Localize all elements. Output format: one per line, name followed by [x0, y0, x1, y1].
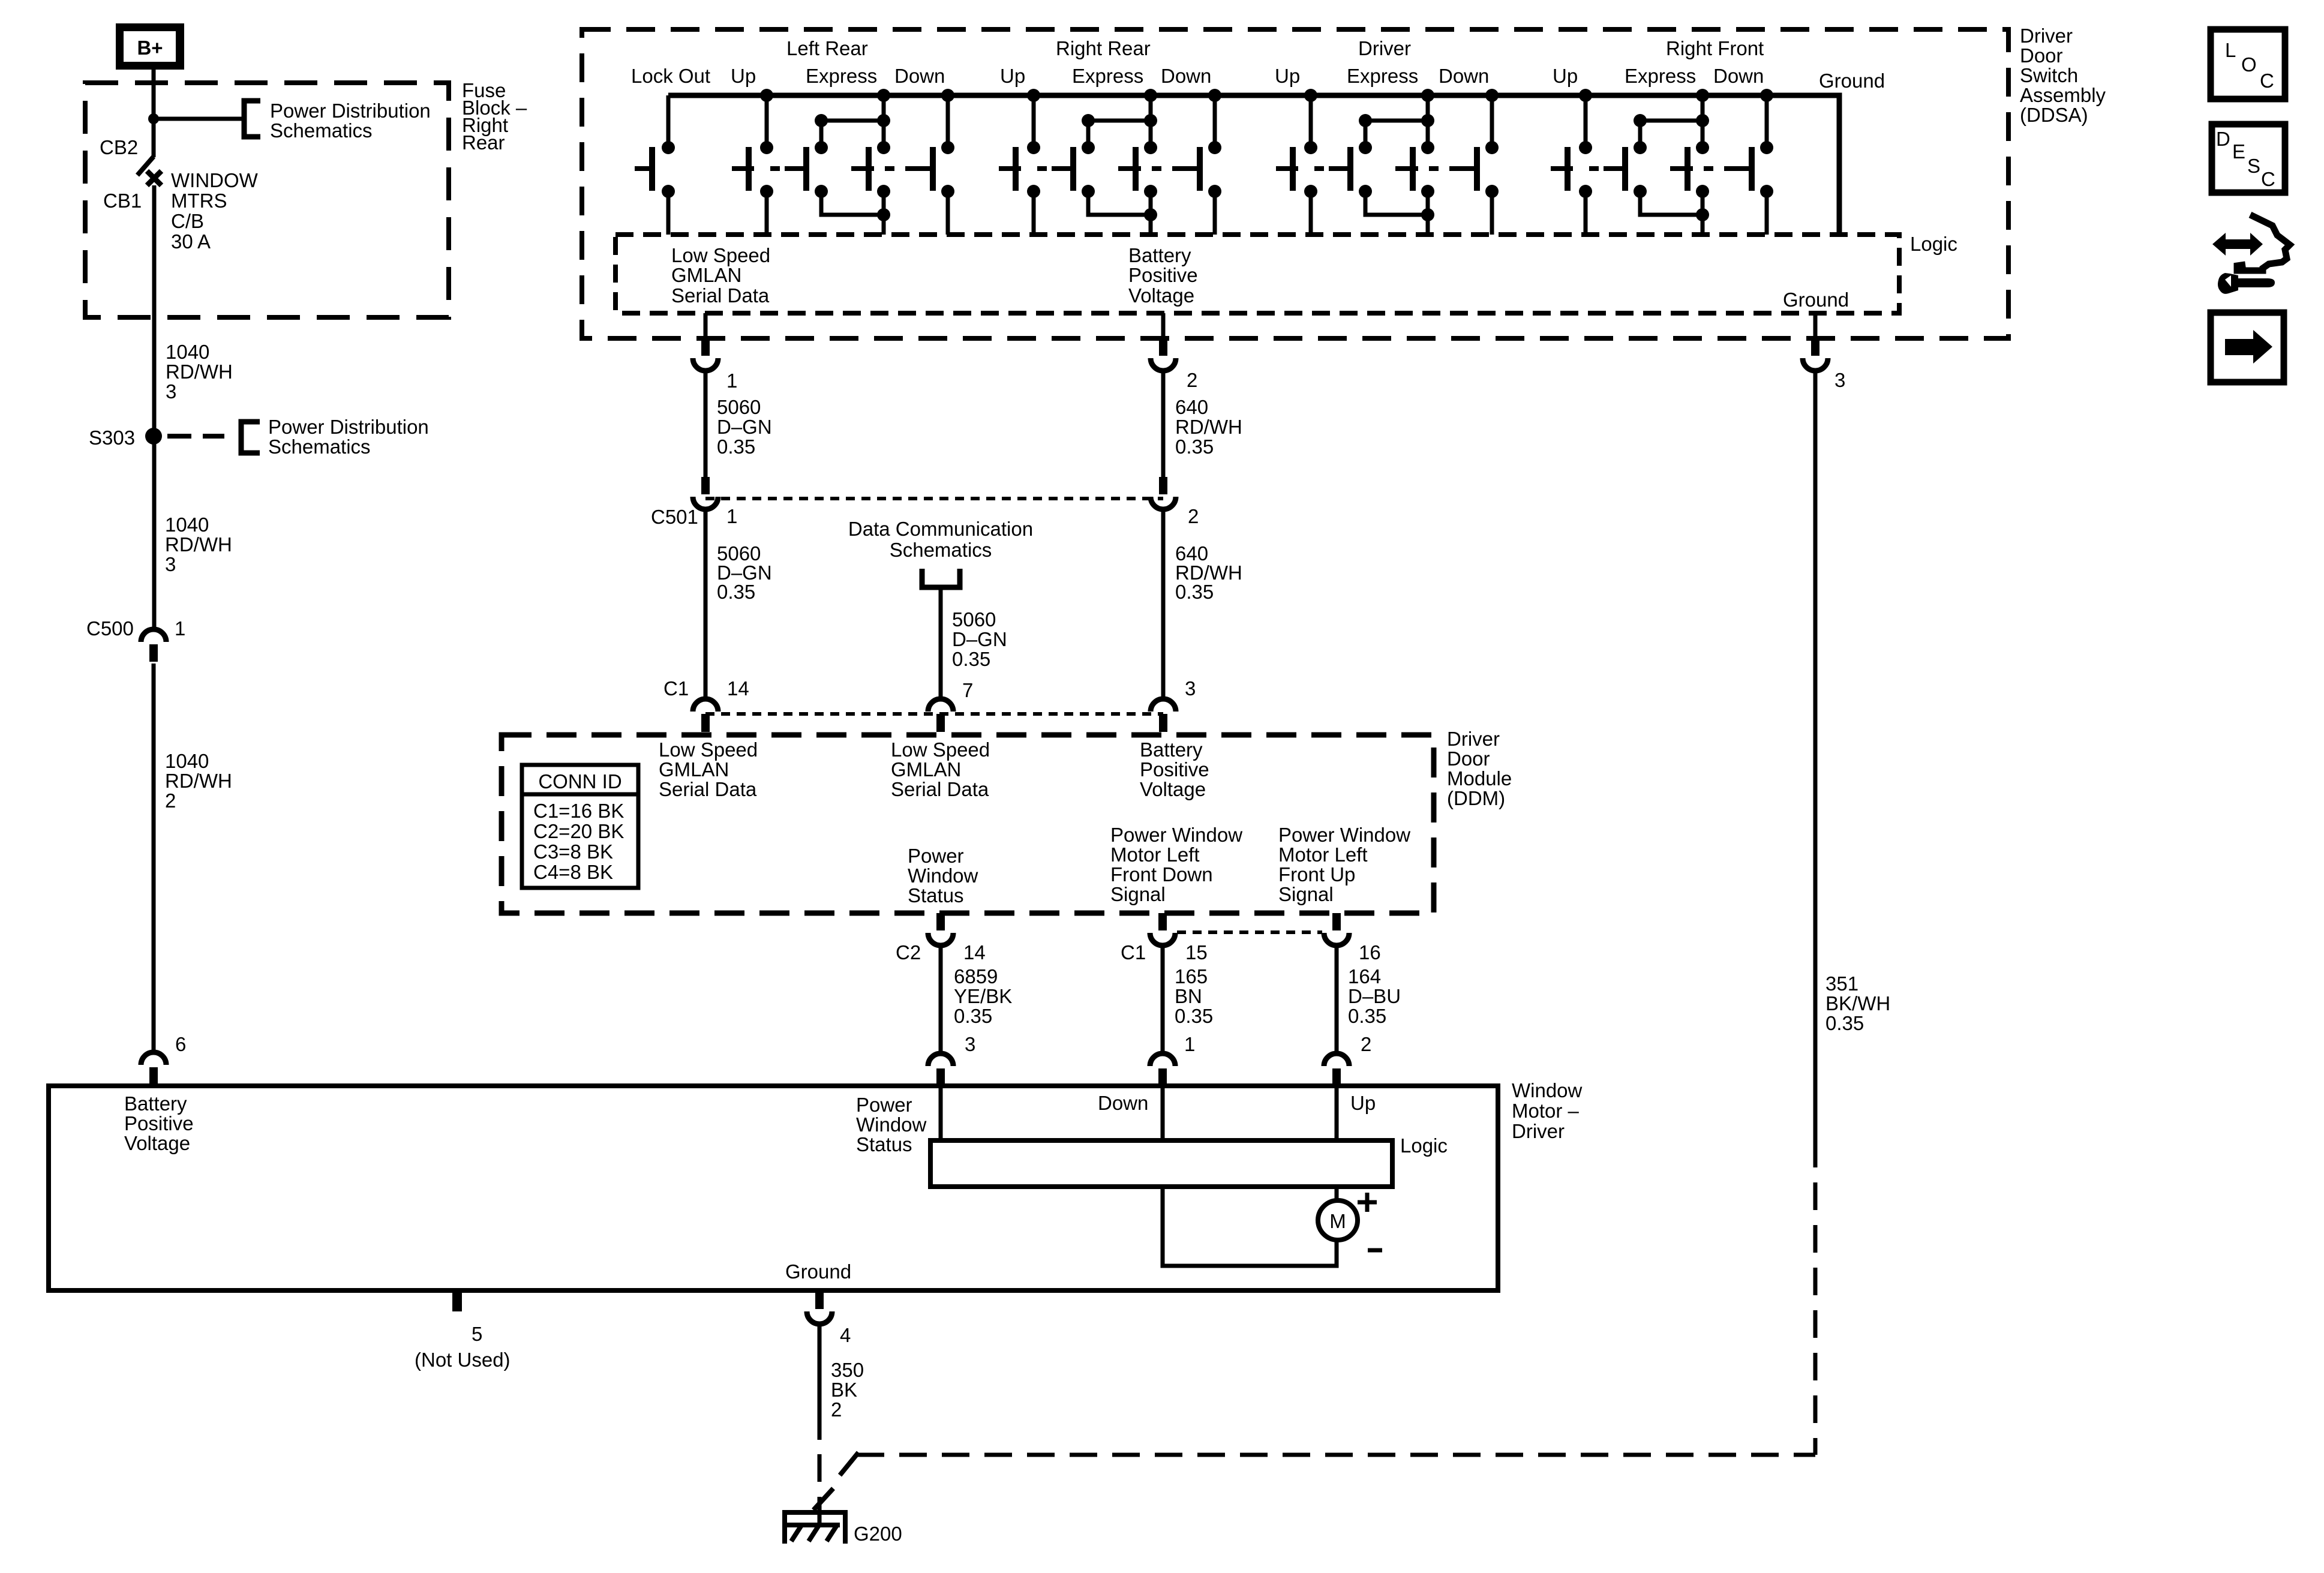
wire: data bus branch to DDM C1 pin 7 [939, 590, 943, 698]
svg-text:0.35: 0.35 [1175, 581, 1214, 603]
splice tick ground branch [840, 1452, 858, 1475]
svg-text:Motor Left: Motor Left [1110, 843, 1200, 866]
switch group: right rear window (up/express/down) [999, 89, 1221, 235]
ground G200 symbol [782, 1510, 848, 1544]
svg-text:Express: Express [1072, 65, 1143, 87]
svg-text:Down: Down [1713, 65, 1764, 87]
wire label: 6859 YE/BK 0.35 [954, 965, 1012, 1027]
icon: diagnostic arrow and wrench [2212, 215, 2290, 294]
svg-text:3: 3 [166, 380, 176, 403]
svg-text:Window: Window [856, 1113, 927, 1136]
wire: motor pin 4 to G200 [818, 1326, 822, 1440]
svg-text:D–GN: D–GN [952, 628, 1007, 650]
wire: C501 to DDM C1 pin 14 [704, 511, 708, 698]
svg-text:350: 350 [831, 1359, 864, 1381]
svg-text:Serial Data: Serial Data [891, 778, 989, 800]
svg-text:Down: Down [1439, 65, 1489, 87]
label: Power Window Status (motor) [856, 1094, 927, 1155]
svg-text:4: 4 [840, 1324, 851, 1346]
svg-text:Up: Up [731, 65, 756, 87]
svg-text:GMLAN: GMLAN [659, 758, 729, 781]
svg-text:0.35: 0.35 [1175, 1005, 1213, 1027]
wire: DDM pin 14 to motor pin 3 [939, 948, 943, 1054]
wire: B+ to circuit breaker [152, 70, 156, 157]
svg-text:C: C [2261, 168, 2275, 190]
connector C501 dashed mating line [705, 497, 1163, 500]
svg-text:3: 3 [1185, 677, 1196, 700]
svg-text:14: 14 [963, 941, 986, 963]
svg-text:RD/WH: RD/WH [165, 770, 232, 792]
circuit breaker CB2 blade [137, 157, 154, 175]
svg-text:5: 5 [472, 1323, 482, 1345]
svg-text:2: 2 [1361, 1033, 1371, 1055]
svg-text:Voltage: Voltage [1128, 284, 1194, 307]
wire label: 351 BK/WH 0.35 [1825, 972, 1890, 1034]
wire: C500 to window motor pin 6 [152, 664, 156, 1053]
svg-text:Driver: Driver [1447, 728, 1500, 750]
svg-text:Schematics: Schematics [890, 539, 992, 561]
svg-text:Battery: Battery [124, 1092, 187, 1115]
svg-text:164: 164 [1348, 965, 1381, 987]
splice S303 [145, 428, 162, 445]
svg-text:0.35: 0.35 [1175, 436, 1214, 458]
wire: DDSA logic to pin 3 [1813, 313, 1818, 338]
svg-text:CB2: CB2 [100, 136, 138, 158]
wire: motor pin 1 to logic bar [1161, 1086, 1165, 1140]
svg-text:Ground: Ground [1819, 70, 1885, 92]
wire label: 5060 D-GN 0.35 (middle) [717, 542, 772, 603]
svg-text:0.35: 0.35 [952, 648, 990, 670]
wire: dashed drop to G200 [818, 1454, 822, 1526]
wire label: 350 BK 2 [831, 1359, 864, 1421]
svg-text:Voltage: Voltage [1140, 778, 1206, 800]
label: Power Window Motor Left Front Down Signal [1110, 824, 1242, 905]
svg-text:15: 15 [1185, 941, 1208, 963]
svg-text:Power: Power [908, 845, 964, 867]
switch group: right front window (up/express/down) [1551, 89, 1773, 235]
wire: DDSA pin 2 to C501 [1161, 372, 1166, 478]
svg-text:1040: 1040 [166, 341, 209, 363]
svg-text:C1: C1 [663, 677, 689, 700]
svg-text:Battery: Battery [1140, 739, 1203, 761]
svg-text:Power: Power [856, 1094, 912, 1116]
svg-text:Module: Module [1447, 767, 1512, 789]
svg-text:Motor Left: Motor Left [1278, 843, 1368, 866]
svg-text:165: 165 [1175, 965, 1208, 987]
svg-text:0.35: 0.35 [1348, 1005, 1386, 1027]
svg-text:Schematics: Schematics [270, 119, 373, 142]
label: Battery Positive Voltage (motor) [124, 1092, 194, 1154]
svg-text:Ground: Ground [1783, 289, 1849, 311]
wire label: 5060 D-GN 0.35 (upper) [717, 396, 772, 458]
svg-text:BN: BN [1175, 985, 1202, 1007]
svg-text:1040: 1040 [165, 514, 209, 536]
svg-text:0.35: 0.35 [1825, 1012, 1864, 1034]
svg-text:3: 3 [165, 553, 176, 575]
svg-text:Power Window: Power Window [1278, 824, 1410, 846]
svg-text:351: 351 [1825, 972, 1858, 995]
svg-text:Up: Up [1275, 65, 1300, 87]
svg-text:Data Communication: Data Communication [848, 518, 1033, 540]
B+ battery positive terminal symbol [116, 23, 184, 70]
svg-text:C500: C500 [86, 617, 134, 640]
wire label: 5060 D-GN 0.35 (branch) [952, 608, 1007, 670]
label: WINDOW MTRS C/B 30 A [171, 169, 259, 253]
svg-text:0.35: 0.35 [717, 581, 755, 603]
svg-text:E: E [2232, 140, 2245, 163]
svg-text:Rear: Rear [462, 131, 505, 154]
svg-text:3: 3 [965, 1033, 975, 1055]
wire: DDM pin 16 to motor pin 2 [1335, 948, 1339, 1054]
wire label: 1040 RD/WH 2 [165, 750, 232, 812]
splice tick into G200 [813, 1488, 833, 1510]
connector C501 pin 1 [693, 477, 718, 509]
svg-text:RD/WH: RD/WH [1175, 416, 1242, 438]
svg-text:WINDOW: WINDOW [171, 169, 259, 191]
svg-text:Express: Express [1347, 65, 1418, 87]
svg-text:2: 2 [1188, 505, 1199, 527]
svg-text:Express: Express [1625, 65, 1696, 87]
wire label: 165 BN 0.35 [1175, 965, 1213, 1027]
svg-text:Lock Out: Lock Out [631, 65, 710, 87]
icon: LOC reference box [2211, 29, 2285, 99]
connector C1 dashed mating line (DDM top) [705, 712, 1163, 716]
wire: DDSA pin 1 to C501 [704, 372, 708, 478]
svg-text:Logic: Logic [1910, 233, 1957, 255]
circuit breaker CB1 contact X [147, 171, 161, 185]
wire: motor pin 3 to logic bar [939, 1086, 943, 1140]
svg-text:Driver: Driver [1512, 1120, 1565, 1142]
label: Low Speed GMLAN Serial Data (DDSA) [671, 244, 770, 307]
connector: motor pin 3 [928, 1053, 953, 1086]
connector: DDM pin 16 [1324, 913, 1349, 945]
svg-text:C3=8 BK: C3=8 BK [533, 840, 613, 863]
label: Driver Door Switch Assembly (DDSA) [2020, 25, 2106, 126]
label: Driver Door Module (DDM) [1447, 728, 1512, 809]
svg-text:CB1: CB1 [103, 190, 142, 212]
svg-text:Power Distribution: Power Distribution [270, 100, 431, 122]
polarity label: - [1368, 1248, 1382, 1253]
svg-text:Window: Window [1512, 1079, 1583, 1101]
svg-text:Low Speed: Low Speed [659, 739, 758, 761]
connector: DDM C1 pin 14 [693, 699, 718, 732]
svg-text:B+: B+ [137, 37, 163, 59]
svg-text:D–BU: D–BU [1348, 985, 1401, 1007]
wire: DDSA logic to pin 1 [704, 313, 708, 338]
wire: DDSA logic to pin 2 [1161, 313, 1166, 338]
svg-text:5060: 5060 [717, 396, 761, 418]
wire label: 164 D-BU 0.35 [1348, 965, 1401, 1027]
svg-text:Assembly: Assembly [2020, 84, 2106, 106]
svg-text:14: 14 [727, 677, 749, 700]
svg-text:1: 1 [1184, 1033, 1195, 1055]
svg-text:BK: BK [831, 1379, 857, 1401]
svg-text:7: 7 [962, 679, 973, 701]
switch group: left rear window (up/express/down) [732, 89, 954, 235]
switch: lock out [635, 95, 675, 235]
wire: S303 dashed branch [167, 434, 224, 439]
wire: ground dashed run to DDSA pin 3 [857, 1453, 1815, 1457]
wire label: 1040 RD/WH 3 (upper) [166, 341, 233, 403]
fuse block dashed box [85, 83, 449, 317]
svg-text:Signal: Signal [1278, 883, 1334, 905]
svg-text:2: 2 [1187, 369, 1197, 391]
wire: DDSA pin 3 ground drop (solid) [1813, 372, 1818, 1140]
wire: CB1 to S303 to C500 [152, 185, 157, 631]
svg-text:Positive: Positive [1128, 264, 1198, 286]
connector: DDM C1 pin 7 [928, 699, 953, 732]
bracket: data communication schematics [922, 569, 960, 587]
wire: switch supply bus [668, 95, 1839, 235]
svg-text:C501: C501 [651, 506, 698, 528]
svg-text:L: L [2225, 39, 2236, 61]
connector: DDSA pin 3 [1803, 338, 1828, 371]
svg-text:RD/WH: RD/WH [165, 533, 232, 556]
svg-text:Switch: Switch [2020, 64, 2078, 86]
svg-text:Positive: Positive [124, 1112, 194, 1134]
wire label: 640 RD/WH 0.35 (upper) [1175, 396, 1242, 458]
connector: motor pin 1 [1150, 1053, 1175, 1086]
connector: DDM C1 pin 3 [1151, 699, 1176, 732]
wire label: 640 RD/WH 0.35 (lower) [1175, 542, 1242, 603]
connector: DDSA pin 1 [693, 338, 718, 371]
svg-text:Up: Up [1000, 65, 1025, 87]
svg-text:M: M [1329, 1210, 1346, 1232]
svg-text:Front Down: Front Down [1110, 863, 1213, 885]
svg-text:C/B: C/B [171, 210, 204, 232]
svg-text:O: O [2241, 53, 2257, 76]
svg-text:Down: Down [894, 65, 945, 87]
label: Low Speed GMLAN Serial Data (DDM pin 7) [891, 739, 990, 800]
svg-text:5060: 5060 [952, 608, 996, 631]
svg-text:1: 1 [726, 370, 737, 392]
label: Data Communication Schematics [848, 518, 1033, 561]
svg-text:16: 16 [1359, 941, 1381, 963]
svg-text:(Not Used): (Not Used) [415, 1349, 511, 1371]
svg-text:Schematics: Schematics [268, 436, 371, 458]
svg-text:CONN ID: CONN ID [538, 770, 621, 792]
svg-text:MTRS: MTRS [171, 190, 227, 212]
wire label: 1040 RD/WH 3 (lower) [165, 514, 232, 575]
icon: DESC reference box [2212, 124, 2285, 193]
svg-text:Down: Down [1098, 1092, 1148, 1114]
svg-text:Serial Data: Serial Data [671, 284, 770, 307]
polarity label: + [1358, 1193, 1377, 1212]
motor M1 circle [1318, 1200, 1358, 1240]
CONN ID table [522, 765, 638, 888]
svg-text:6: 6 [175, 1033, 186, 1055]
svg-text:GMLAN: GMLAN [891, 758, 961, 781]
svg-text:S: S [2247, 155, 2260, 177]
svg-text:Door: Door [1447, 748, 1490, 770]
svg-text:2: 2 [165, 789, 176, 812]
svg-text:6859: 6859 [954, 965, 998, 987]
svg-text:Window: Window [908, 864, 978, 887]
svg-text:0.35: 0.35 [954, 1005, 992, 1027]
svg-text:Positive: Positive [1140, 758, 1209, 781]
wire: motor pin 2 to logic bar [1335, 1086, 1339, 1140]
window motor - driver box [49, 1086, 1498, 1290]
svg-text:C2=20 BK: C2=20 BK [533, 820, 624, 842]
node: junction at fuse block feed [148, 113, 159, 124]
label: Battery Positive Voltage (DDSA) [1128, 244, 1198, 307]
svg-text:G200: G200 [854, 1523, 902, 1545]
svg-text:Front Up: Front Up [1278, 863, 1355, 885]
svg-text:GMLAN: GMLAN [671, 264, 741, 286]
svg-text:(DDM): (DDM) [1447, 787, 1505, 809]
svg-text:1: 1 [726, 505, 737, 527]
connector: motor pin 2 [1324, 1053, 1349, 1086]
svg-text:0.35: 0.35 [717, 436, 755, 458]
bracket: power distribution schematics (S303) [241, 422, 260, 453]
svg-text:Power Window: Power Window [1110, 824, 1242, 846]
svg-text:S303: S303 [89, 427, 135, 449]
connector C500 [141, 629, 166, 662]
svg-text:RD/WH: RD/WH [166, 361, 233, 383]
svg-text:Up: Up [1553, 65, 1578, 87]
svg-text:Serial Data: Serial Data [659, 778, 757, 800]
svg-text:Ground: Ground [785, 1260, 851, 1283]
connector: DDSA pin 2 [1151, 338, 1176, 371]
label: Window Motor - Driver [1512, 1079, 1583, 1142]
connector: window motor pin 6 [141, 1052, 166, 1085]
svg-text:Low Speed: Low Speed [891, 739, 990, 761]
svg-text:30 A: 30 A [171, 230, 211, 253]
svg-text:YE/BK: YE/BK [954, 985, 1012, 1007]
connector: DDM C1 pin 15 [1150, 913, 1175, 945]
svg-text:Status: Status [908, 884, 964, 906]
svg-text:BK/WH: BK/WH [1825, 992, 1890, 1014]
icon: arrow reference box [2211, 313, 2284, 382]
svg-text:Low Speed: Low Speed [671, 244, 770, 266]
svg-text:1: 1 [175, 617, 185, 640]
label: Battery Positive Voltage (DDM) [1140, 739, 1209, 800]
driver door switch assembly (DDSA) dashed box [582, 29, 2008, 338]
svg-text:Driver: Driver [1358, 37, 1411, 59]
svg-text:Up: Up [1350, 1092, 1376, 1114]
svg-text:640: 640 [1175, 396, 1208, 418]
bracket: power distribution schematics (top) [244, 101, 260, 137]
pin stub: motor pin 5 [452, 1291, 462, 1311]
svg-text:Down: Down [1161, 65, 1211, 87]
svg-text:Right Rear: Right Rear [1056, 37, 1151, 59]
svg-text:C2: C2 [896, 941, 921, 963]
svg-text:Voltage: Voltage [124, 1132, 190, 1154]
wire: junction to power distribution bracket [154, 117, 242, 121]
svg-text:Motor –: Motor – [1512, 1100, 1580, 1122]
svg-text:3: 3 [1834, 369, 1845, 391]
connector C501 pin 2 [1151, 477, 1176, 509]
svg-text:Battery: Battery [1128, 244, 1191, 266]
svg-text:C1: C1 [1121, 941, 1146, 963]
wire: DDM pin 15 to motor pin 1 [1161, 948, 1165, 1054]
svg-text:Power Distribution: Power Distribution [268, 416, 429, 438]
svg-text:Door: Door [2020, 44, 2063, 67]
connector C1 dashed mating line (DDM bottom) [1177, 930, 1322, 934]
svg-text:C1=16 BK: C1=16 BK [533, 800, 624, 822]
svg-text:C4=8 BK: C4=8 BK [533, 861, 613, 883]
svg-text:Status: Status [856, 1133, 912, 1155]
svg-text:Express: Express [806, 65, 877, 87]
svg-text:Driver: Driver [2020, 25, 2073, 47]
label: Low Speed GMLAN Serial Data (DDM pin 14) [659, 739, 758, 800]
label: Power Window Status (DDM) [908, 845, 978, 906]
svg-text:Left Rear: Left Rear [786, 37, 868, 59]
wire: DDSA pin 3 ground drop (dashed) [1813, 1140, 1818, 1455]
svg-text:(DDSA): (DDSA) [2020, 104, 2088, 126]
motor logic bar [930, 1140, 1392, 1187]
label: Power Window Motor Left Front Up Signal [1278, 824, 1410, 905]
svg-text:D: D [2216, 128, 2230, 150]
svg-text:Right Front: Right Front [1666, 37, 1764, 59]
connector: motor pin 4 [807, 1291, 832, 1324]
connector: DDM C2 pin 14 [928, 913, 953, 945]
svg-text:1040: 1040 [165, 750, 209, 772]
svg-text:D–GN: D–GN [717, 416, 772, 438]
wire: logic bar to motor armature loop [1163, 1187, 1337, 1266]
svg-text:Signal: Signal [1110, 883, 1166, 905]
svg-text:2: 2 [831, 1398, 842, 1421]
DDSA logic dashed box [615, 235, 1899, 313]
wire: logic bar to motor positive [1335, 1187, 1339, 1200]
driver door module (DDM) dashed box [502, 735, 1434, 913]
switch group: driver window (up/express/down) [1276, 89, 1499, 235]
svg-text:Logic: Logic [1400, 1134, 1448, 1157]
wire: C501 to DDM C1 pin 3 [1161, 511, 1166, 698]
svg-text:C: C [2260, 70, 2274, 92]
